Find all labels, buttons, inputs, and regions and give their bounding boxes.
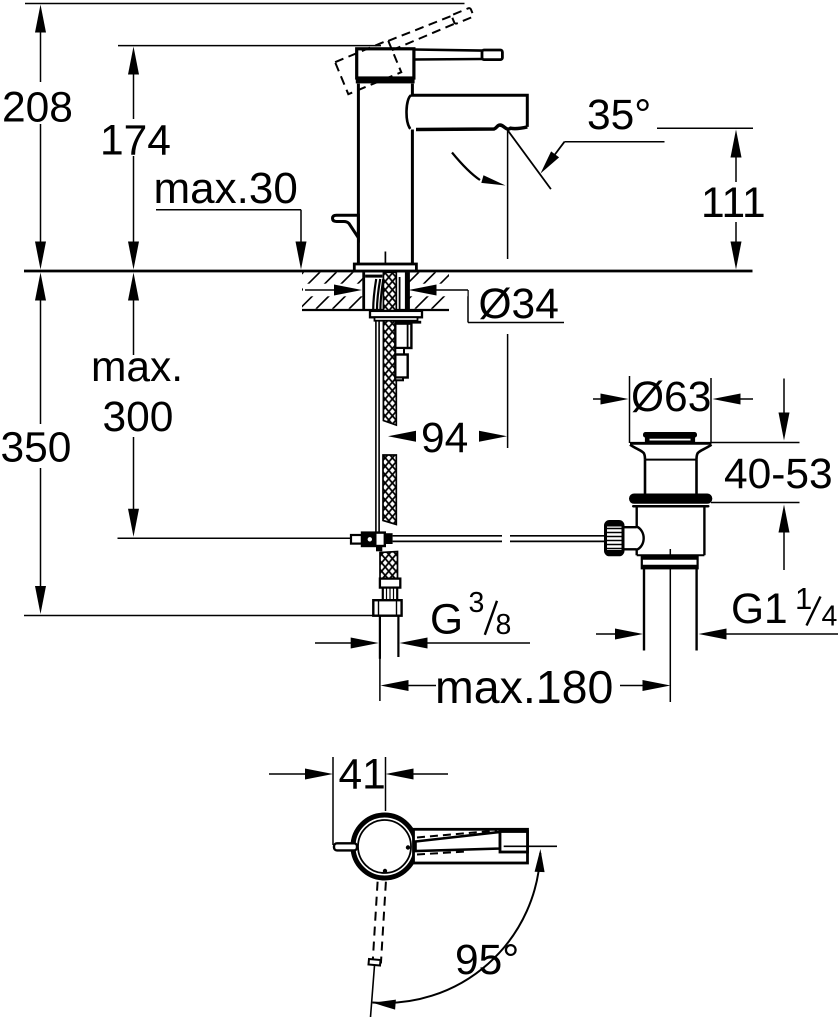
svg-text:350: 350 <box>1 425 72 472</box>
svg-text:4: 4 <box>822 601 838 633</box>
svg-text:1: 1 <box>795 581 812 616</box>
svg-text:111: 111 <box>701 180 766 227</box>
svg-text:G1: G1 <box>731 586 788 633</box>
svg-text:max.180: max.180 <box>435 661 613 713</box>
svg-text:Ø63: Ø63 <box>631 374 711 421</box>
svg-text:Ø34: Ø34 <box>479 281 559 328</box>
svg-text:35°: 35° <box>587 92 651 139</box>
svg-text:8: 8 <box>496 609 512 641</box>
svg-text:max.: max. <box>91 344 183 391</box>
svg-text:174: 174 <box>100 118 171 165</box>
svg-text:300: 300 <box>103 394 174 441</box>
svg-text:G: G <box>430 597 463 644</box>
svg-text:94: 94 <box>421 415 468 462</box>
svg-text:41: 41 <box>339 752 386 799</box>
svg-text:3: 3 <box>469 587 485 619</box>
svg-text:max.30: max.30 <box>154 164 298 213</box>
svg-text:95°: 95° <box>455 937 519 984</box>
svg-text:208: 208 <box>2 85 73 132</box>
svg-text:40-53: 40-53 <box>724 451 833 498</box>
